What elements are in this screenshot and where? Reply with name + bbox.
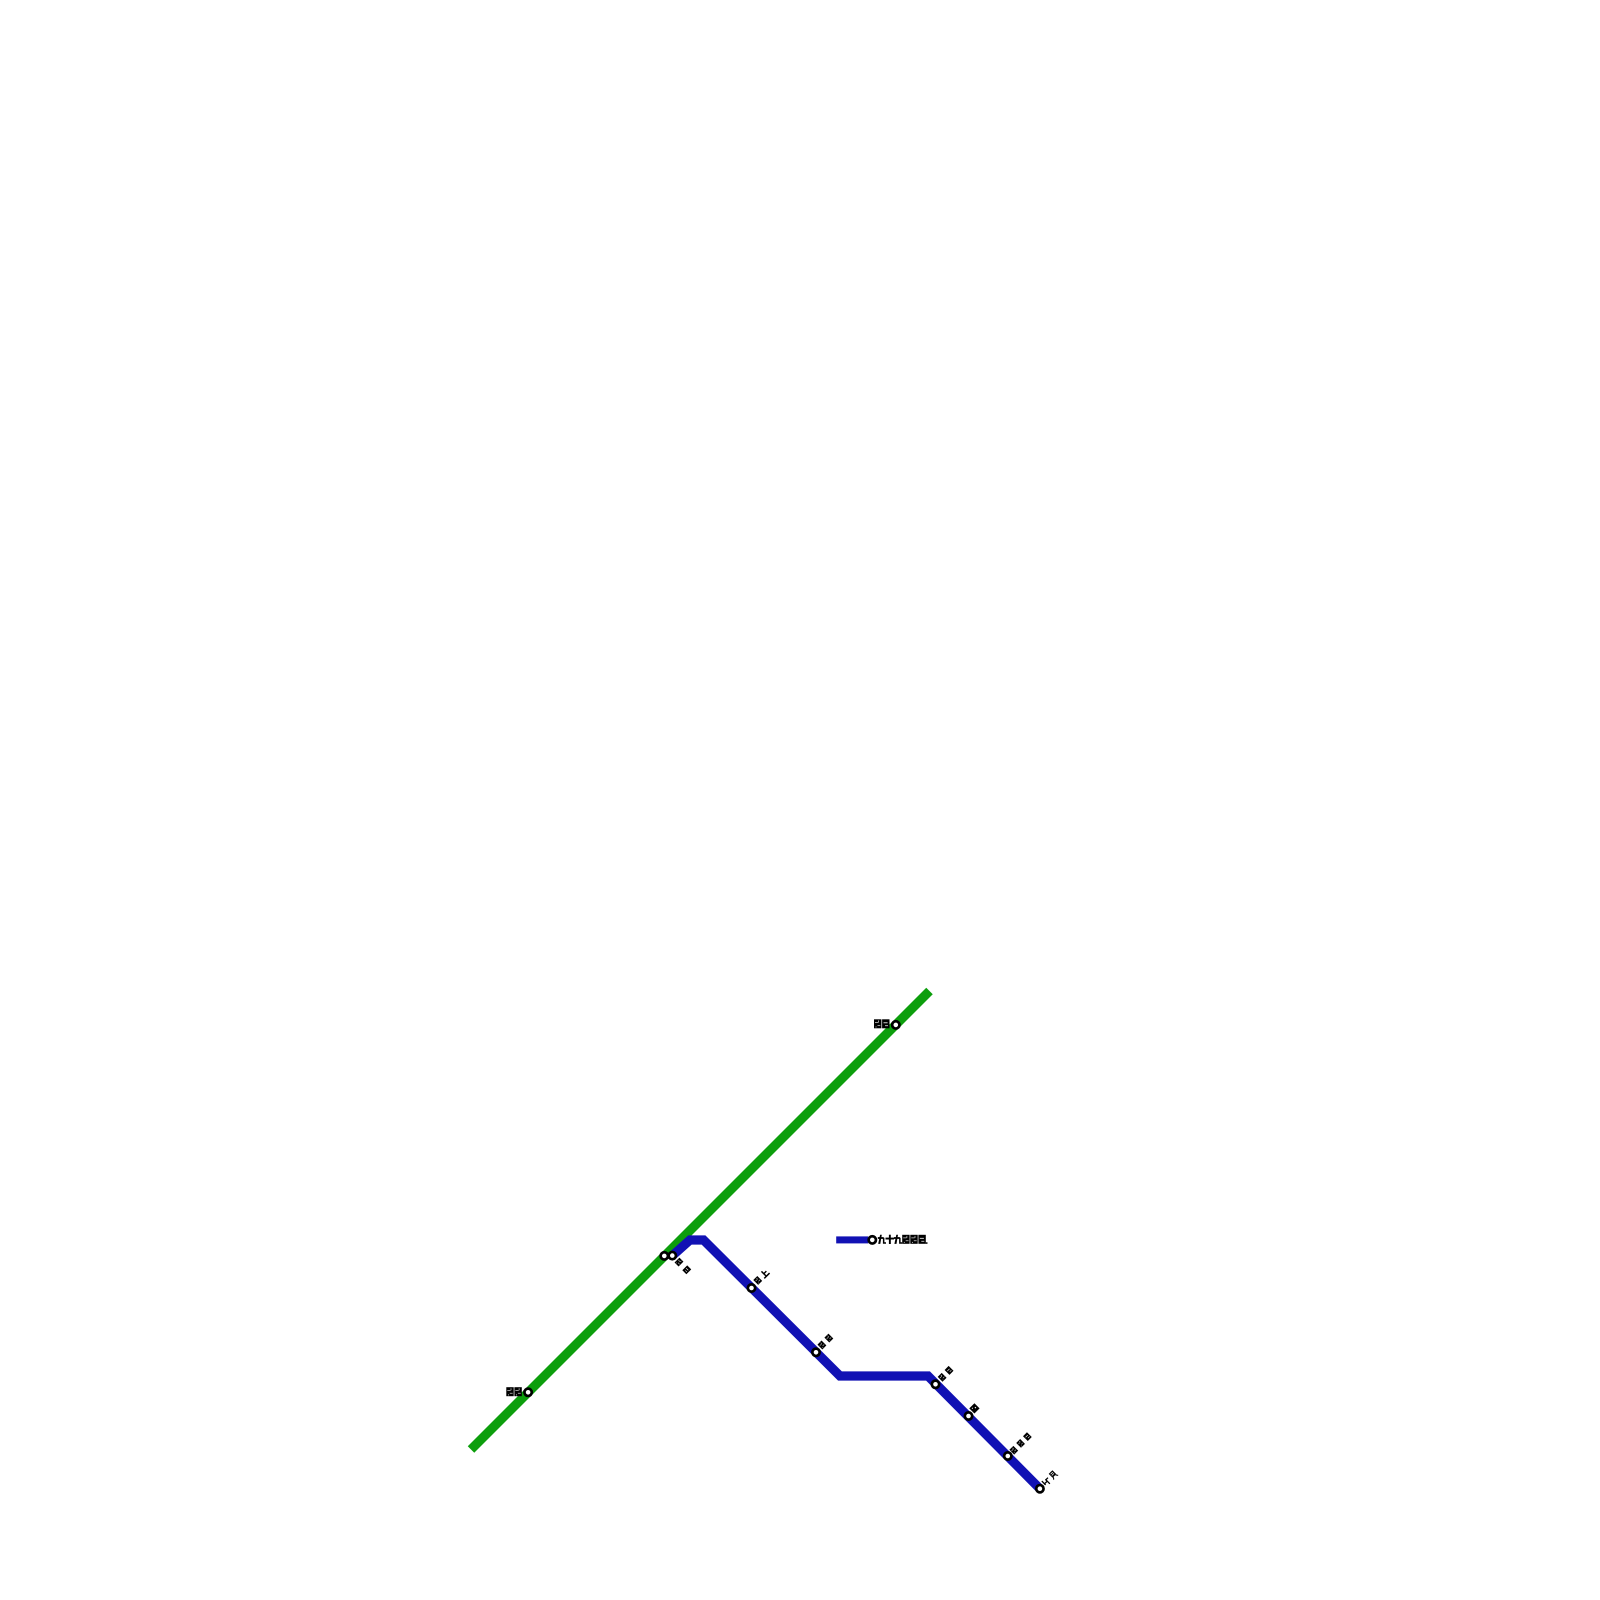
station circle Togane Kujukuri 東金 xyxy=(669,1252,676,1259)
station circle Gumyo 求名 xyxy=(892,1021,899,1028)
wire: JR Togane Line (green) xyxy=(471,991,930,1450)
legend line sample (Kujukuri Railway) xyxy=(836,1236,868,1243)
station circle legend marker xyxy=(869,1236,876,1243)
label Gakkomae 学校前 xyxy=(1009,1432,1031,1454)
label Kamimusata 家徳 xyxy=(817,1334,833,1350)
station circle Katoku 家徳 xyxy=(932,1381,939,1388)
station circle Gakkomae 学校前 xyxy=(1004,1452,1011,1459)
station circle Togane JR 東金 xyxy=(661,1252,668,1259)
station circle Fukutawara 福俵 xyxy=(524,1389,531,1396)
label Fukutawara 福俵 xyxy=(506,1387,522,1396)
label Katakai 片貝 xyxy=(1041,1470,1058,1487)
label Togane 東金 xyxy=(675,1258,692,1275)
station circle Kamimusata 家徳 xyxy=(812,1349,819,1356)
label Tanaka 田 xyxy=(969,1403,979,1413)
wire: Kujukuri Railway line (blue) xyxy=(672,1240,1040,1489)
label legend text 九十九里鉄道 xyxy=(878,1235,928,1244)
label Katoku xyxy=(938,1366,954,1382)
label Horiage 堀上 xyxy=(753,1268,770,1285)
label Gumyo 求名 xyxy=(874,1019,890,1028)
station circle Tanaka 田 xyxy=(965,1412,972,1419)
station circle Katakai 片貝 xyxy=(1036,1485,1043,1492)
station circle Horiage 堀上 xyxy=(748,1284,755,1291)
